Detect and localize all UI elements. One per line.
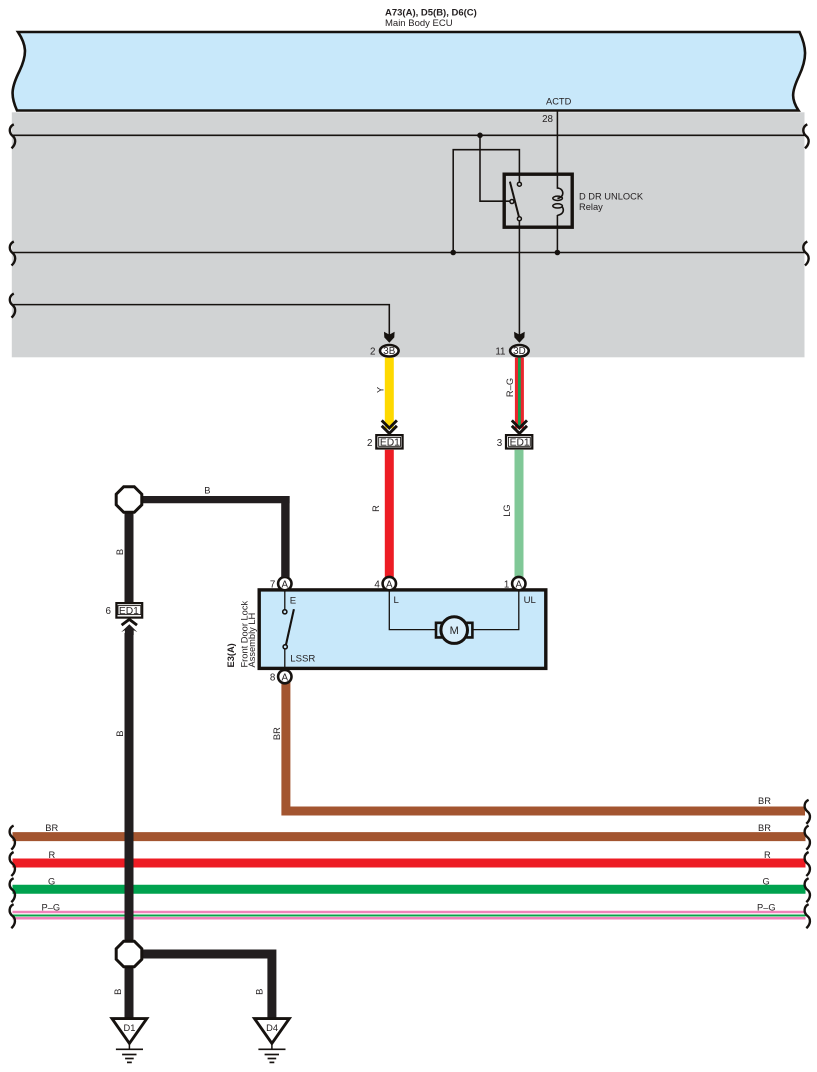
torn-edge squiggles bottom right — [805, 800, 810, 928]
svg-text:11: 11 — [495, 347, 505, 358]
svg-text:R: R — [49, 850, 56, 860]
svg-text:A: A — [282, 672, 289, 683]
svg-text:ED1: ED1 — [119, 606, 139, 617]
wire: relay switch output down to 3D — [518, 221, 520, 338]
svg-text:R–G: R–G — [505, 378, 515, 397]
motor left bracket — [436, 623, 442, 638]
connector arrow into 3D — [514, 332, 525, 343]
wire: R-G from 3D to ED1 — [515, 358, 524, 429]
torn-edge squiggles bottom left — [10, 826, 15, 929]
wire: switch to pin 8 — [284, 649, 286, 677]
svg-text:E3(A): E3(A) — [226, 643, 236, 667]
svg-text:B: B — [115, 549, 125, 555]
chevron up into ED1 (6) — [122, 619, 137, 625]
svg-text:Y: Y — [375, 387, 385, 393]
svg-text:L: L — [394, 595, 400, 606]
chevrons into ED1 (3) — [512, 420, 527, 433]
harness band (gray) — [12, 112, 805, 357]
svg-text:BR: BR — [45, 823, 58, 833]
svg-text:1: 1 — [504, 580, 509, 591]
svg-text:P–G: P–G — [42, 902, 61, 912]
connector box 3 ED1 — [497, 435, 533, 449]
wire: yellow Y from 3B to ED1 — [385, 358, 394, 429]
svg-text:G: G — [48, 877, 55, 887]
splice octagon 1 — [116, 487, 142, 513]
wire: R bus — [13, 859, 806, 868]
pin 1 circle — [504, 577, 526, 591]
svg-text:3: 3 — [497, 438, 503, 449]
E3 internal switch wire — [284, 591, 286, 610]
wire: bus line 3 to 3B — [12, 305, 390, 338]
svg-text:LG: LG — [502, 504, 512, 516]
junction dot on bus 2 right — [555, 250, 561, 256]
chevrons into ED1 (2) — [382, 420, 397, 433]
svg-text:ACTD: ACTD — [546, 97, 572, 107]
svg-text:D4: D4 — [266, 1023, 278, 1033]
pin 7 circle — [270, 577, 292, 591]
wire: black B long run with arrow top — [121, 624, 137, 635]
junction dot on bus 1 — [477, 133, 483, 139]
wire: light green LG from ED1 to pin 1 — [515, 450, 524, 577]
svg-text:B: B — [115, 730, 125, 736]
svg-text:G: G — [763, 877, 770, 887]
wire: P-G bus — [13, 902, 806, 915]
svg-text:BR: BR — [758, 796, 771, 806]
wire: black B to D1 — [125, 960, 134, 1018]
wire: ACTD from ECU to relay coil — [556, 111, 558, 189]
svg-text:B: B — [204, 486, 210, 496]
wire: bus line 2 — [12, 252, 805, 254]
svg-text:28: 28 — [542, 114, 553, 125]
svg-text:A: A — [386, 579, 393, 590]
relay D DR UNLOCK box — [504, 174, 572, 227]
ECU band (Main Body ECU, torn wavy edges) — [13, 32, 805, 111]
svg-text:BR: BR — [758, 823, 771, 833]
svg-text:P–G: P–G — [757, 902, 776, 912]
connector arrow into 3B — [384, 332, 395, 343]
torn-edge squiggles gray band left — [10, 124, 15, 317]
svg-text:ED1: ED1 — [380, 438, 400, 449]
svg-text:8: 8 — [270, 673, 276, 684]
switch arm — [286, 609, 294, 644]
wire: BR bus — [13, 832, 806, 841]
svg-text:B: B — [255, 989, 265, 995]
svg-text:D DR UNLOCK: D DR UNLOCK — [579, 192, 644, 202]
svg-text:3B: 3B — [383, 346, 395, 357]
ground D1 — [112, 1019, 147, 1063]
label E3(A) Front Door Lock Assembly LH — [226, 600, 257, 667]
relay coil — [557, 188, 562, 198]
svg-text:LSSR: LSSR — [290, 654, 315, 665]
svg-text:E: E — [290, 596, 296, 607]
svg-text:D1: D1 — [124, 1023, 136, 1033]
svg-text:Main Body ECU: Main Body ECU — [385, 18, 453, 29]
motor M — [441, 617, 468, 644]
ground D4 — [255, 1019, 290, 1063]
relay switch arm — [510, 182, 519, 217]
pin 8 circle — [270, 670, 292, 684]
switch contact top — [283, 610, 287, 614]
svg-text:BR: BR — [272, 727, 282, 740]
svg-text:7: 7 — [270, 580, 275, 591]
connector box 2 ED1 — [367, 435, 403, 449]
svg-text:Relay: Relay — [579, 202, 603, 212]
splice octagon 2 — [116, 941, 142, 967]
relay common contact — [510, 200, 514, 204]
connector oval 3B — [380, 345, 399, 357]
svg-text:R: R — [764, 850, 771, 860]
relay switch contact top — [517, 182, 521, 186]
svg-text:2: 2 — [370, 347, 375, 358]
svg-text:A: A — [282, 579, 289, 590]
relay switch contact bottom — [517, 217, 521, 221]
svg-text:2: 2 — [367, 438, 372, 449]
svg-text:Assembly LH: Assembly LH — [247, 613, 257, 668]
svg-text:B: B — [113, 989, 123, 995]
wire: bus line 1 — [12, 134, 805, 136]
svg-text:M: M — [450, 625, 459, 637]
junction dot on bus 2 left — [450, 250, 456, 256]
svg-text:A: A — [516, 579, 523, 590]
wire: red R from ED1 to pin 4 — [385, 450, 394, 577]
wire: brown BR from pin 8 — [286, 682, 805, 811]
wire: relay common pin feed from bus 1 — [480, 135, 510, 201]
motor right bracket — [466, 623, 472, 638]
wire: relay top pin feed — [453, 150, 519, 253]
svg-text:3D: 3D — [513, 346, 526, 357]
E3 Front Door Lock Assembly box — [259, 590, 546, 669]
switch contact bottom — [283, 645, 287, 649]
svg-text:ED1: ED1 — [510, 438, 530, 449]
E3 motor wiring — [389, 592, 437, 630]
svg-text:UL: UL — [524, 595, 537, 606]
svg-text:R: R — [371, 505, 381, 512]
wire: relay coil output to bus 2 — [556, 215, 558, 253]
svg-text:4: 4 — [374, 580, 380, 591]
svg-text:6: 6 — [106, 606, 112, 617]
connector oval 3D — [510, 345, 529, 357]
wire: black B from junction to pin 7 — [140, 496, 290, 503]
wire: black B junction down to ED1 — [125, 505, 134, 603]
connector box 6 ED1 — [106, 603, 143, 618]
wire: G bus — [13, 885, 806, 894]
wire: black B to D4 — [140, 954, 272, 1018]
pin 4 circle — [374, 577, 396, 591]
label: Main Body ECU title — [385, 8, 477, 29]
torn-edge squiggles gray band right — [803, 124, 808, 265]
